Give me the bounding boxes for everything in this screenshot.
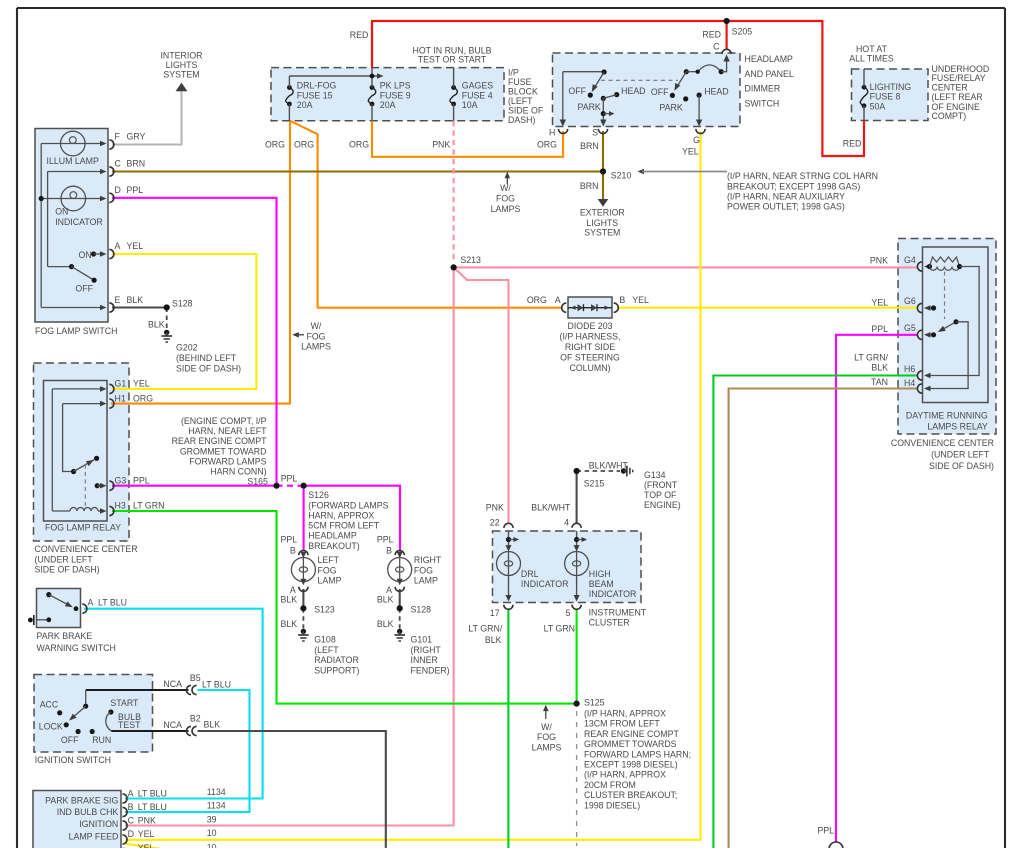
svg-text:CONVENIENCE CENTER: CONVENIENCE CENTER: [891, 438, 994, 448]
svg-text:S215: S215: [584, 479, 605, 489]
svg-text:PARK: PARK: [659, 102, 682, 112]
svg-text:RIGHT: RIGHT: [414, 555, 442, 565]
svg-text:IGNITION: IGNITION: [79, 819, 118, 829]
svg-text:LT GRN: LT GRN: [544, 623, 575, 633]
svg-text:C: C: [713, 42, 720, 52]
svg-text:1998 DIESEL): 1998 DIESEL): [584, 800, 640, 810]
svg-text:OFF: OFF: [568, 86, 586, 96]
svg-text:PPL: PPL: [871, 324, 888, 334]
svg-text:HIGH: HIGH: [589, 569, 611, 579]
svg-text:PPL: PPL: [817, 826, 834, 836]
svg-text:W/: W/: [541, 722, 552, 732]
svg-text:YEL: YEL: [632, 295, 649, 305]
svg-text:G4: G4: [904, 255, 916, 265]
svg-text:CLUSTER: CLUSTER: [589, 618, 630, 628]
svg-text:G1: G1: [115, 379, 127, 389]
svg-text:(BEHIND LEFT: (BEHIND LEFT: [176, 353, 237, 363]
svg-text:YEL: YEL: [138, 829, 155, 839]
svg-text:SUPPORT): SUPPORT): [314, 665, 359, 675]
svg-text:I/P: I/P: [508, 68, 519, 78]
svg-text:W/: W/: [311, 321, 322, 331]
svg-text:INDICATOR: INDICATOR: [589, 589, 637, 599]
svg-text:RIGHT SIDE: RIGHT SIDE: [565, 342, 615, 352]
svg-text:W/: W/: [500, 183, 511, 193]
svg-text:PPL: PPL: [127, 185, 144, 195]
svg-text:(FRONT: (FRONT: [644, 480, 678, 490]
svg-text:LAMP: LAMP: [414, 575, 438, 585]
svg-text:LT GRN/: LT GRN/: [854, 353, 888, 363]
svg-text:PARK BRAKE SIG: PARK BRAKE SIG: [45, 795, 118, 805]
svg-text:FUSE 4: FUSE 4: [462, 90, 493, 100]
svg-text:TEST OR START: TEST OR START: [418, 55, 487, 65]
svg-text:ORG: ORG: [537, 140, 557, 150]
svg-text:YEL: YEL: [127, 241, 144, 251]
svg-text:LAMPS: LAMPS: [491, 204, 521, 214]
svg-text:PNK: PNK: [870, 256, 888, 266]
svg-text:S125: S125: [584, 698, 605, 708]
svg-text:SYSTEM: SYSTEM: [163, 70, 199, 80]
svg-text:FENDER): FENDER): [411, 665, 450, 675]
svg-text:ON: ON: [55, 207, 68, 217]
svg-text:B: B: [128, 802, 134, 812]
svg-text:17: 17: [490, 608, 500, 618]
svg-text:WARNING SWITCH: WARNING SWITCH: [37, 643, 116, 653]
svg-text:G6: G6: [904, 296, 916, 306]
svg-text:G101: G101: [411, 635, 433, 645]
svg-text:OFF: OFF: [75, 283, 93, 293]
svg-text:TAN: TAN: [871, 377, 888, 387]
svg-text:FOG: FOG: [318, 565, 337, 575]
svg-text:H: H: [549, 127, 555, 137]
svg-text:FORWARD LAMPS: FORWARD LAMPS: [189, 456, 266, 466]
svg-text:YEL: YEL: [138, 843, 155, 848]
svg-text:BLK: BLK: [485, 635, 502, 645]
svg-text:20CM FROM: 20CM FROM: [584, 780, 636, 790]
svg-text:S123: S123: [314, 604, 335, 614]
svg-text:LT GRN/: LT GRN/: [468, 623, 502, 633]
svg-text:LOCK: LOCK: [39, 722, 63, 732]
svg-text:FUSE 8: FUSE 8: [870, 92, 901, 102]
svg-text:FORWARD LAMPS HARN;: FORWARD LAMPS HARN;: [584, 749, 691, 759]
svg-text:ACC: ACC: [40, 700, 59, 710]
svg-text:LIGHTING: LIGHTING: [870, 82, 912, 92]
svg-text:PNK: PNK: [486, 503, 504, 513]
svg-text:HARN, APPROX: HARN, APPROX: [308, 510, 374, 520]
svg-text:GROMMET TOWARDS: GROMMET TOWARDS: [584, 739, 677, 749]
svg-text:(LEFT REAR: (LEFT REAR: [932, 92, 983, 102]
svg-text:A: A: [386, 585, 392, 595]
svg-text:TOP OF: TOP OF: [644, 490, 677, 500]
svg-text:IGNITION SWITCH: IGNITION SWITCH: [35, 755, 111, 765]
svg-text:SIDE OF DASH): SIDE OF DASH): [35, 564, 100, 574]
svg-text:H3: H3: [115, 501, 126, 511]
svg-text:GRY: GRY: [127, 132, 146, 142]
svg-text:ALL TIMES: ALL TIMES: [849, 54, 894, 64]
svg-text:LT BLU: LT BLU: [138, 802, 167, 812]
svg-text:FOG: FOG: [414, 565, 433, 575]
svg-text:(UNDER LEFT: (UNDER LEFT: [931, 450, 990, 460]
svg-text:LT GRN: LT GRN: [133, 501, 164, 511]
svg-text:BREAKOUT; EXCEPT 1998 GAS): BREAKOUT; EXCEPT 1998 GAS): [727, 181, 860, 191]
svg-text:LAMP FEED: LAMP FEED: [69, 831, 119, 841]
svg-text:BLOCK: BLOCK: [508, 87, 538, 97]
svg-text:COMPT): COMPT): [932, 111, 967, 121]
svg-text:LT BLU: LT BLU: [98, 598, 127, 608]
svg-text:GAGES: GAGES: [462, 81, 493, 91]
svg-text:G202: G202: [176, 343, 198, 353]
svg-text:(I/P HARN, NEAR AUXILIARY: (I/P HARN, NEAR AUXILIARY: [727, 191, 845, 201]
svg-text:H4: H4: [904, 378, 915, 388]
svg-text:DASH): DASH): [508, 115, 535, 125]
svg-text:10A: 10A: [462, 100, 478, 110]
svg-text:B: B: [386, 546, 392, 556]
svg-text:RED: RED: [350, 30, 369, 40]
svg-text:BLK: BLK: [148, 320, 165, 330]
svg-text:ORG: ORG: [294, 140, 314, 150]
svg-text:ON: ON: [79, 250, 92, 260]
svg-text:HEAD: HEAD: [704, 87, 728, 97]
svg-text:INTERIOR: INTERIOR: [160, 51, 202, 61]
svg-text:H1: H1: [115, 394, 126, 404]
svg-text:INNER: INNER: [411, 655, 438, 665]
svg-text:LIGHTS: LIGHTS: [166, 60, 198, 70]
svg-text:RED: RED: [702, 30, 721, 40]
svg-text:(LEFT: (LEFT: [508, 96, 533, 106]
svg-text:HEAD: HEAD: [621, 86, 645, 96]
svg-text:TEST: TEST: [118, 720, 141, 730]
svg-text:OFF: OFF: [651, 87, 669, 97]
svg-text:START: START: [110, 698, 139, 708]
svg-text:ORG: ORG: [133, 394, 153, 404]
svg-text:PPL: PPL: [133, 476, 150, 486]
svg-text:(I/P HARN, APPROX: (I/P HARN, APPROX: [584, 709, 666, 719]
svg-text:BLK: BLK: [377, 619, 394, 629]
svg-text:ORG: ORG: [527, 295, 547, 305]
svg-text:BLK/WHT: BLK/WHT: [589, 460, 629, 470]
svg-text:(I/P HARN, APPROX: (I/P HARN, APPROX: [584, 770, 666, 780]
svg-text:S128: S128: [411, 604, 432, 614]
svg-text:EXCEPT 1998 DIESEL): EXCEPT 1998 DIESEL): [584, 760, 678, 770]
svg-text:B: B: [290, 546, 296, 556]
svg-text:LT BLU: LT BLU: [138, 789, 167, 799]
svg-text:AND PANEL: AND PANEL: [745, 69, 794, 79]
svg-text:SIDE OF DASH): SIDE OF DASH): [176, 363, 241, 373]
svg-text:BLK: BLK: [204, 720, 221, 730]
svg-text:DAYTIME RUNNING: DAYTIME RUNNING: [906, 411, 988, 421]
svg-text:1134: 1134: [207, 787, 226, 797]
svg-text:FOG: FOG: [306, 331, 325, 341]
svg-text:HOT AT: HOT AT: [856, 44, 888, 54]
svg-text:A: A: [115, 241, 121, 251]
svg-text:RADIATOR: RADIATOR: [314, 655, 359, 665]
svg-text:(RIGHT: (RIGHT: [411, 645, 442, 655]
svg-text:LAMPS: LAMPS: [532, 742, 562, 752]
svg-text:20A: 20A: [297, 100, 313, 110]
svg-text:4: 4: [564, 518, 569, 528]
svg-text:B2: B2: [190, 714, 201, 724]
svg-text:G134: G134: [644, 470, 666, 480]
svg-text:BRN: BRN: [127, 159, 146, 169]
svg-text:LAMPS RELAY: LAMPS RELAY: [927, 422, 988, 432]
svg-text:ORG: ORG: [349, 140, 369, 150]
svg-text:F: F: [115, 132, 121, 142]
svg-text:LIGHTS: LIGHTS: [586, 218, 618, 228]
svg-text:G3: G3: [115, 476, 127, 486]
svg-text:CLUSTER BREAKOUT;: CLUSTER BREAKOUT;: [584, 790, 677, 800]
svg-text:50A: 50A: [870, 101, 886, 111]
svg-text:LEFT: LEFT: [318, 555, 340, 565]
svg-text:E: E: [115, 295, 121, 305]
svg-text:RED: RED: [843, 138, 862, 148]
svg-text:10: 10: [207, 828, 217, 838]
svg-text:A: A: [555, 295, 561, 305]
svg-text:YEL: YEL: [871, 297, 888, 307]
svg-text:FUSE: FUSE: [508, 77, 532, 87]
svg-text:FOG LAMP RELAY: FOG LAMP RELAY: [45, 523, 121, 533]
svg-text:S128: S128: [172, 299, 193, 309]
svg-text:C: C: [115, 159, 122, 169]
svg-text:S126: S126: [308, 490, 329, 500]
svg-text:ORG: ORG: [265, 140, 285, 150]
svg-text:PK LPS: PK LPS: [380, 81, 411, 91]
svg-text:S205: S205: [732, 27, 753, 37]
svg-text:FOG: FOG: [496, 194, 515, 204]
svg-text:EXTERIOR: EXTERIOR: [580, 208, 625, 218]
svg-text:B5: B5: [190, 673, 201, 683]
svg-text:PPL: PPL: [281, 474, 298, 484]
svg-text:DRL: DRL: [521, 569, 539, 579]
svg-text:DRL-FOG: DRL-FOG: [297, 81, 337, 91]
svg-text:PARK BRAKE: PARK BRAKE: [37, 631, 93, 641]
svg-text:A: A: [88, 598, 94, 608]
svg-text:LT BLU: LT BLU: [202, 680, 231, 690]
svg-text:S210: S210: [611, 171, 632, 181]
svg-text:C: C: [128, 816, 135, 826]
svg-text:BLK: BLK: [377, 594, 394, 604]
svg-text:CONVENIENCE CENTER: CONVENIENCE CENTER: [35, 544, 138, 554]
svg-text:FUSE 9: FUSE 9: [380, 90, 411, 100]
svg-text:ENGINE): ENGINE): [644, 500, 681, 510]
svg-text:IND BULB CHK: IND BULB CHK: [57, 807, 119, 817]
svg-text:D: D: [115, 185, 121, 195]
svg-text:13CM FROM LEFT: 13CM FROM LEFT: [584, 719, 660, 729]
svg-text:GROMMET TOWARD: GROMMET TOWARD: [180, 446, 267, 456]
svg-text:1134: 1134: [207, 801, 226, 811]
svg-text:YEL: YEL: [133, 379, 150, 389]
svg-text:5: 5: [565, 608, 570, 618]
svg-text:S: S: [592, 127, 598, 137]
svg-text:SIDE OF: SIDE OF: [508, 106, 544, 116]
svg-text:22: 22: [490, 518, 500, 528]
svg-text:HEADLAMP: HEADLAMP: [308, 531, 357, 541]
svg-text:BLK: BLK: [281, 594, 298, 604]
svg-text:5CM FROM LEFT: 5CM FROM LEFT: [308, 520, 379, 530]
svg-text:YEL: YEL: [682, 146, 699, 156]
svg-text:BLK: BLK: [871, 362, 888, 372]
svg-text:(I/P HARN, NEAR STRNG COL HARN: (I/P HARN, NEAR STRNG COL HARN: [727, 171, 878, 181]
svg-text:HARN, NEAR LEFT: HARN, NEAR LEFT: [188, 426, 267, 436]
svg-text:NCA: NCA: [163, 679, 182, 689]
svg-text:D: D: [128, 829, 134, 839]
svg-text:BLK: BLK: [281, 619, 298, 629]
svg-text:BREAKOUT): BREAKOUT): [308, 541, 359, 551]
svg-text:G: G: [693, 135, 700, 145]
svg-text:SIDE OF DASH): SIDE OF DASH): [929, 461, 994, 471]
svg-text:REAR ENGINE COMPT: REAR ENGINE COMPT: [584, 729, 679, 739]
svg-text:LAMP: LAMP: [318, 575, 342, 585]
svg-text:FUSE 15: FUSE 15: [297, 90, 333, 100]
svg-text:B: B: [619, 295, 625, 305]
svg-text:HARN CONN): HARN CONN): [210, 467, 266, 477]
svg-text:INSTRUMENT: INSTRUMENT: [589, 608, 647, 618]
svg-text:FOG LAMP SWITCH: FOG LAMP SWITCH: [35, 326, 117, 336]
svg-text:(UNDER LEFT: (UNDER LEFT: [35, 554, 94, 564]
svg-text:COLUMN): COLUMN): [569, 363, 610, 373]
svg-text:PNK: PNK: [138, 816, 156, 826]
svg-text:BLK: BLK: [127, 295, 144, 305]
svg-text:(LEFT: (LEFT: [314, 645, 339, 655]
svg-text:DIMMER: DIMMER: [745, 84, 781, 94]
svg-text:ILLUM LAMP: ILLUM LAMP: [47, 156, 99, 166]
svg-text:OFF: OFF: [61, 735, 79, 745]
svg-text:A: A: [290, 585, 296, 595]
svg-text:H6: H6: [904, 364, 915, 374]
svg-text:RUN: RUN: [92, 735, 111, 745]
svg-text:SWITCH: SWITCH: [745, 98, 780, 108]
svg-text:BRN: BRN: [580, 181, 599, 191]
svg-text:S213: S213: [460, 255, 481, 265]
svg-text:BLK/WHT: BLK/WHT: [531, 503, 571, 513]
svg-text:PARK: PARK: [578, 102, 601, 112]
svg-text:G108: G108: [314, 635, 336, 645]
svg-text:10: 10: [207, 843, 217, 848]
svg-text:20A: 20A: [380, 100, 396, 110]
svg-text:S165: S165: [247, 477, 268, 487]
svg-text:REAR ENGINE COMPT: REAR ENGINE COMPT: [172, 436, 267, 446]
svg-text:BRN: BRN: [580, 141, 599, 151]
svg-text:PPL: PPL: [377, 535, 394, 545]
svg-text:POWER OUTLET; 1998 GAS): POWER OUTLET; 1998 GAS): [727, 201, 845, 211]
svg-text:(FORWARD LAMPS: (FORWARD LAMPS: [308, 500, 388, 510]
svg-text:BEAM: BEAM: [589, 579, 614, 589]
svg-text:HEADLAMP: HEADLAMP: [745, 54, 794, 64]
svg-text:39: 39: [207, 814, 217, 824]
svg-text:FOG: FOG: [537, 732, 556, 742]
svg-text:(I/P HARNESS,: (I/P HARNESS,: [560, 332, 621, 342]
svg-text:PPL: PPL: [281, 535, 298, 545]
svg-text:DIODE 203: DIODE 203: [568, 321, 613, 331]
svg-text:PNK: PNK: [432, 140, 450, 150]
svg-text:G5: G5: [904, 323, 916, 333]
svg-text:A: A: [128, 789, 134, 799]
svg-text:LAMPS: LAMPS: [301, 342, 331, 352]
svg-text:NCA: NCA: [163, 720, 182, 730]
svg-text:INDICATOR: INDICATOR: [521, 579, 569, 589]
svg-text:INDICATOR: INDICATOR: [55, 217, 103, 227]
svg-text:OF STEERING: OF STEERING: [560, 353, 620, 363]
svg-text:SYSTEM: SYSTEM: [584, 228, 620, 238]
svg-text:(ENGINE COMPT, I/P: (ENGINE COMPT, I/P: [181, 416, 267, 426]
